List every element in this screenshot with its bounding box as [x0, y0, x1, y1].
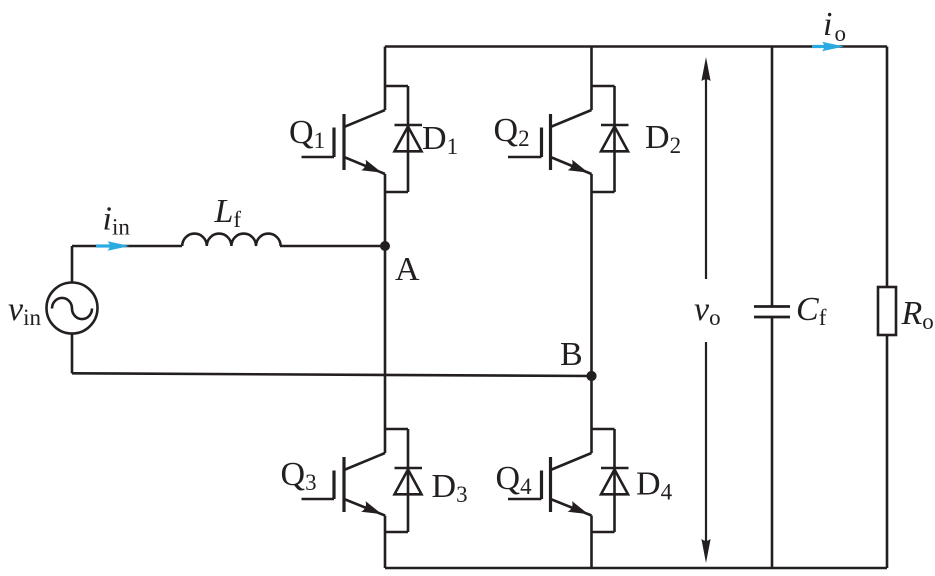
wire input top left — [72, 245, 182, 248]
diode D2 — [592, 86, 629, 192]
svg-text:A: A — [395, 251, 420, 288]
diode D1 — [385, 86, 422, 192]
wire leg1 lower — [384, 516, 387, 569]
ac source vin circle — [47, 283, 98, 334]
diode D4 — [592, 429, 629, 532]
wire leg1 middle — [384, 174, 387, 453]
wire leg1 upper — [384, 47, 387, 111]
vo arrow — [705, 64, 707, 556]
wire input top right — [280, 245, 385, 248]
wire bottom rail — [385, 567, 887, 570]
wire source bottom lead — [71, 334, 74, 374]
capacitor Cf — [754, 307, 790, 318]
diode D3 — [385, 429, 422, 532]
node B — [586, 371, 596, 381]
svg-text:Q2: Q2 — [494, 112, 530, 151]
wire leg2 middle — [590, 174, 593, 453]
node A — [380, 241, 390, 251]
wire leg2 lower — [590, 516, 593, 569]
wire source top lead — [71, 246, 74, 283]
svg-text:Ro: Ro — [901, 295, 934, 334]
svg-text:D3: D3 — [432, 468, 468, 507]
transistor Q1 — [302, 110, 386, 174]
wire right rail upper — [886, 47, 889, 288]
svg-text:D1: D1 — [422, 120, 458, 159]
wire Cf branch upper — [771, 47, 774, 307]
wire Cf branch lower — [771, 317, 774, 568]
svg-text:io: io — [823, 6, 846, 46]
transistor Q2 — [508, 110, 592, 174]
wire right rail lower — [886, 335, 889, 568]
wire leg2 upper — [590, 47, 593, 111]
wire input bottom to node B — [72, 373, 592, 376]
svg-text:vin: vin — [8, 291, 41, 330]
transistor Q4 — [508, 453, 592, 516]
svg-text:Q3: Q3 — [281, 456, 317, 495]
svg-text:vo: vo — [694, 291, 721, 330]
transistor Q3 — [302, 453, 386, 516]
svg-text:Lf: Lf — [214, 193, 242, 232]
inductor Lf — [182, 234, 280, 246]
current arrow i_in — [96, 241, 130, 250]
wire top rail — [385, 45, 887, 48]
svg-text:iin: iin — [103, 201, 131, 240]
svg-text:Cf: Cf — [796, 291, 827, 330]
current arrow i_o — [812, 42, 844, 51]
svg-text:D4: D4 — [636, 466, 673, 505]
svg-text:D2: D2 — [645, 119, 681, 158]
svg-text:Q4: Q4 — [496, 460, 533, 499]
svg-text:B: B — [560, 336, 583, 373]
svg-text:Q1: Q1 — [289, 114, 325, 153]
resistor Ro — [878, 287, 896, 335]
